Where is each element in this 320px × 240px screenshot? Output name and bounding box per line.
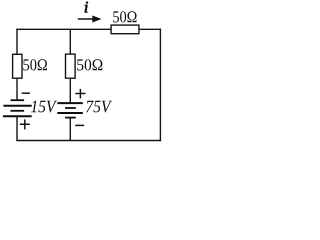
label 15V	[31, 101, 57, 113]
label 50 ohm left	[23, 59, 47, 70]
wire left vertical upper	[16, 29, 18, 55]
wire middle resistor to battery V2	[69, 79, 71, 103]
battery V1 15V plates	[3, 100, 32, 116]
wire battery V1 to bottom wire	[16, 116, 18, 140]
wire top-left horizontal segment	[16, 28, 110, 30]
polarity minus of V1	[22, 92, 30, 94]
wire right vertical	[159, 29, 161, 142]
polarity plus of V1	[20, 119, 30, 129]
battery V2 75V plates	[57, 103, 83, 118]
label 75V	[86, 101, 112, 113]
label 50 ohm top	[113, 11, 136, 22]
wire bottom horizontal	[16, 140, 161, 142]
wire battery V2 to bottom wire	[69, 118, 71, 141]
current arrow i head	[93, 16, 101, 22]
resistor R2 50ohm left vertical	[13, 54, 22, 78]
resistor R1 50ohm horizontal top	[111, 25, 139, 34]
wire middle vertical upper	[69, 29, 71, 54]
wire top-right horizontal segment	[139, 28, 161, 30]
polarity plus of V2	[75, 89, 85, 99]
polarity minus of V2	[75, 124, 84, 126]
wire left resistor to battery V1	[16, 79, 18, 100]
label i current	[85, 2, 88, 13]
resistor R3 50ohm middle vertical	[66, 54, 76, 78]
current arrow i shaft	[78, 18, 94, 20]
label 50 ohm middle	[77, 59, 102, 70]
